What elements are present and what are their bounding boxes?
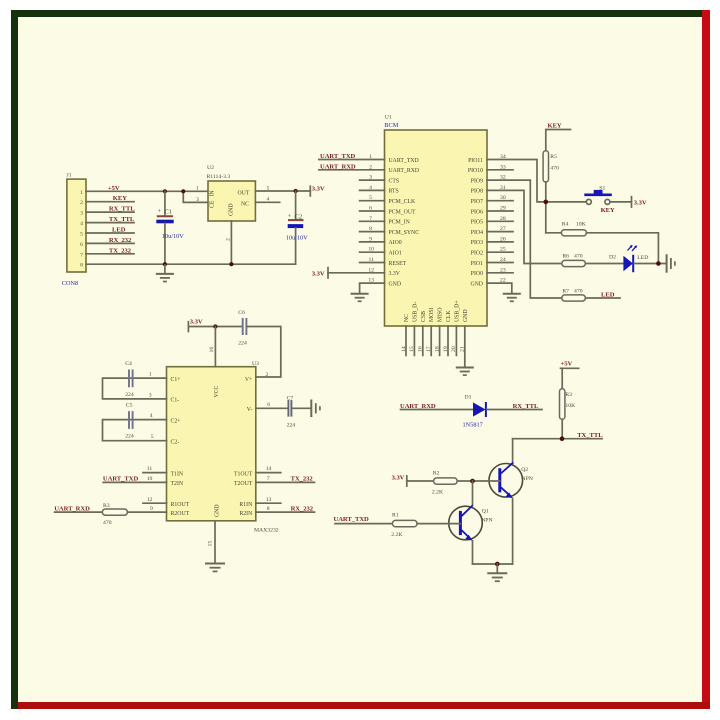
svg-text:224: 224 [287,423,296,429]
svg-text:R6: R6 [562,253,569,259]
svg-text:3.3V: 3.3V [312,185,325,192]
wire R4 to LED node [587,233,659,264]
svg-text:6: 6 [267,402,270,408]
junction rail/U2 GND [229,262,233,266]
wire 3.3V to R2 [407,480,434,482]
svg-text:R7: R7 [562,288,569,294]
svg-text:10u/10V: 10u/10V [162,233,184,240]
resistor R1 [391,512,417,538]
capacitor C6 [238,310,247,346]
svg-text:PIO8: PIO8 [471,189,483,195]
svg-text:15: 15 [207,541,213,547]
svg-text:C2: C2 [295,213,303,220]
wire Q1 collector up [472,481,474,504]
svg-text:RX_232: RX_232 [109,237,132,244]
wire D1 to RX_TTL [487,409,542,411]
svg-text:9: 9 [150,506,153,512]
svg-text:CE: CE [210,200,216,208]
svg-text:GND: GND [463,309,469,322]
wire U1 pin2 UART_RXD [319,169,385,171]
resistor R7 [562,288,586,301]
U3 stub pin12 R1OUT [143,502,167,504]
resistor R3 10K [560,389,577,420]
svg-text:V-: V- [247,407,253,413]
svg-text:C7: C7 [287,396,294,402]
svg-text:RX_TTL: RX_TTL [513,403,539,410]
resistor R3 470 [102,503,127,526]
svg-text:7: 7 [80,252,83,258]
svg-text:RX_TTL: RX_TTL [109,206,135,213]
svg-text:16: 16 [209,347,215,353]
wire R1 to Q1 base [417,523,460,525]
wire +5V rail J1 pin1 to U2 IN [86,190,208,192]
svg-text:PIO10: PIO10 [468,168,483,174]
ground at U3 pin15 [205,564,225,572]
svg-text:12: 12 [147,497,153,503]
junction emitter/ground [495,562,500,567]
U1 left stub pins 3-11 [360,180,385,262]
svg-text:CLK: CLK [446,310,452,322]
svg-text:AIO1: AIO1 [389,251,402,257]
svg-text:NC: NC [404,314,410,322]
U3 stub pin13 R1IN [256,502,281,504]
U1 right pin numbers [500,154,506,284]
svg-text:U3: U3 [252,361,259,367]
resistor R6 [562,253,586,266]
junction KEY node [544,200,549,205]
svg-text:UART_TXD: UART_TXD [389,158,419,164]
svg-text:S1: S1 [599,185,605,191]
svg-text:RTS: RTS [389,189,399,195]
ground at U1 pin13 [351,294,369,302]
svg-text:7: 7 [267,476,270,482]
svg-text:TX_TTL: TX_TTL [109,216,135,223]
wire U3 pin1 C1+ loop [103,378,167,399]
wire U3 pin16 VCC stub [214,327,216,367]
ground rotated right of C7 [311,400,320,418]
junction TX_TTL node [560,436,565,441]
svg-text:PIO6: PIO6 [471,209,483,215]
svg-text:+: + [158,208,162,215]
svg-text:R2: R2 [433,470,440,476]
svg-text:5: 5 [151,434,154,440]
svg-text:C1-: C1- [171,398,180,404]
svg-text:10K: 10K [576,221,587,227]
svg-text:4: 4 [267,196,270,202]
wire R2 to Q2 base [457,480,500,482]
svg-text:V+: V+ [245,377,252,383]
diode D1 1N5817 [463,395,486,429]
ground at U1 pin22 [503,294,521,302]
svg-text:UART_TXD: UART_TXD [103,476,139,483]
svg-text:R1: R1 [392,512,399,518]
svg-text:2.2K: 2.2K [391,532,403,538]
svg-text:Q2: Q2 [521,467,528,473]
resistor R5 [543,151,559,182]
svg-text:AIO0: AIO0 [389,240,402,246]
svg-text:PIO0: PIO0 [471,271,483,277]
svg-text:R2IN: R2IN [239,511,253,517]
ground rotated right of D2 [667,254,675,272]
svg-text:KEY: KEY [113,195,127,202]
wire UART_TXD to U3 pin10 [103,481,166,483]
svg-text:GND: GND [215,504,221,517]
svg-text:UART_RXD: UART_RXD [389,168,420,174]
svg-text:3.3V: 3.3V [392,474,405,481]
svg-text:1: 1 [80,190,83,196]
svg-text:470: 470 [550,166,559,172]
svg-text:Q1: Q1 [482,509,489,515]
svg-text:10: 10 [147,476,153,482]
svg-text:PIO2: PIO2 [471,251,483,257]
svg-text:PCM_OUT: PCM_OUT [389,209,417,215]
svg-text:MAX3232: MAX3232 [254,528,279,534]
svg-text:UART_TXD: UART_TXD [320,153,356,160]
svg-text:VCC: VCC [214,385,220,397]
svg-text:T2OUT: T2OUT [234,481,253,487]
frame green left bar [11,10,18,709]
wire +5V to R3 10K [561,368,563,388]
wire TX node to Q2 collector [512,439,514,463]
svg-text:PIO3: PIO3 [471,240,483,246]
power port bar at R2 [406,476,408,486]
resistor R2 [432,470,457,495]
svg-text:224: 224 [125,434,134,440]
capacitor C5 [125,403,134,440]
svg-text:C4: C4 [125,361,132,367]
svg-text:OUT: OUT [238,190,250,196]
wire C7 to ground [292,407,311,409]
wire J1 pin6 RX_232 [86,242,134,244]
svg-text:+5V: +5V [561,360,573,367]
svg-text:1: 1 [196,185,199,191]
wire J1 pin2 KEY [86,201,134,203]
power port 3.3V at S1 [631,197,633,207]
svg-text:J1: J1 [67,173,72,179]
junction +5V/C1 [163,189,167,193]
junction R2/Q1 collector [470,479,475,484]
svg-text:6: 6 [80,242,83,248]
wire J1 pin5 LED [86,232,134,234]
svg-text:R3: R3 [565,392,572,398]
svg-text:U1: U1 [385,115,392,121]
wire ground stub Q1 Q2 [496,564,498,573]
svg-text:PCM_IN: PCM_IN [389,220,411,226]
switch S1 [584,185,615,214]
wire U2 NC pin4 [255,201,279,203]
svg-text:U2: U2 [207,165,214,171]
svg-text:224: 224 [125,392,134,398]
svg-text:10u 10V: 10u 10V [286,235,308,242]
svg-text:3.3V: 3.3V [312,270,325,277]
svg-text:3.3V: 3.3V [190,319,203,326]
svg-text:PIO9: PIO9 [471,178,483,184]
svg-text:+5V: +5V [108,185,120,192]
wire D2 cathode to node [634,263,666,265]
svg-text:+: + [288,213,292,220]
wire R6 to D2 [585,263,623,265]
svg-text:UART_RXD: UART_RXD [320,163,356,170]
svg-text:LED: LED [601,291,615,298]
svg-text:C2+: C2+ [171,418,181,424]
wire KEY node to R4 [546,232,562,234]
svg-text:470: 470 [574,288,583,294]
svg-text:RESET: RESET [389,261,407,267]
wire U1 pin34 to KEY node [487,160,586,202]
wire Q1 emitter down [472,541,474,564]
svg-text:3: 3 [149,393,152,399]
svg-text:224: 224 [238,340,247,346]
svg-text:R3: R3 [103,503,110,509]
IC U1 BCM module [384,115,487,327]
svg-text:4: 4 [150,413,153,419]
svg-text:T1OUT: T1OUT [234,471,253,477]
svg-text:R1IN: R1IN [239,502,253,508]
svg-text:NPN: NPN [522,476,533,482]
wire U3 pin8 to RX_232 [256,511,315,513]
wire UART_RXD to D1 [401,409,474,411]
svg-text:2.2K: 2.2K [432,489,444,495]
svg-text:RX_232: RX_232 [291,505,314,512]
svg-text:1N5817: 1N5817 [463,422,483,429]
svg-text:2: 2 [80,200,83,206]
wire R3 to U3 pin9 [128,511,167,513]
wire U1 pin12 3.3V [328,272,385,274]
svg-text:T1IN: T1IN [171,471,184,477]
svg-text:8: 8 [80,263,83,269]
wire U3 pin4 C2+ loop [103,420,167,441]
wire U1 pin22 GND [487,283,512,293]
svg-text:USB_D+: USB_D+ [454,300,460,322]
svg-text:PIO4: PIO4 [471,230,483,236]
wire 3.3V rail to C6 [188,326,242,328]
wire UART_TXD to R1 [335,523,392,525]
wire U2 CE branch [183,191,208,202]
U1 bottom pin numbers 14-21 [401,346,466,352]
power port 3.3V at U2 OUT [309,186,311,196]
wire emitter rail [473,563,513,565]
svg-text:USB_D-: USB_D- [412,302,418,322]
wire Q2 emitter down [512,498,514,564]
svg-text:C6: C6 [238,310,245,316]
svg-text:NPN: NPN [481,517,492,523]
resistor R4 [561,221,586,236]
svg-text:2: 2 [266,372,269,378]
svg-text:PCM_SYNC: PCM_SYNC [389,230,420,236]
junction LED node [656,261,661,266]
ground at U1 pin21 [456,368,474,376]
wire U2 OUT to 3.3V [255,190,310,192]
wire TX_TTL line [513,438,603,440]
svg-text:KEY: KEY [601,207,615,214]
svg-text:NC: NC [241,202,249,208]
svg-text:8: 8 [267,506,270,512]
svg-text:GND: GND [470,281,483,287]
wire U3 pin7 to TX_232 [256,481,315,483]
svg-text:LED: LED [637,255,648,261]
transistor Q2 [489,462,533,498]
wire U1 pin1 UART_TXD [319,159,385,161]
svg-text:1: 1 [149,372,152,378]
transistor Q1 [449,505,493,541]
wire R3 to TX_TTL node [561,419,563,438]
LED D2 [609,245,648,272]
svg-text:MOSI: MOSI [429,307,435,322]
frame green top bar [11,10,702,17]
svg-text:CSB: CSB [421,311,427,322]
wire UART_RXD to R3 [55,511,103,513]
svg-text:D1: D1 [465,395,472,401]
wire C6 to U3 V+ pin2 [247,327,280,378]
svg-text:T2IN: T2IN [171,481,184,487]
svg-text:LED: LED [112,227,126,234]
svg-text:CON8: CON8 [62,280,78,287]
svg-text:5: 5 [80,232,83,238]
power port 3.3V at U1 pin12 [327,268,329,278]
svg-text:3: 3 [196,197,199,203]
wire J1 pin3 RX_TTL [86,211,134,213]
svg-text:PCM_CLK: PCM_CLK [389,199,417,205]
U1 right stub pins 33 30 29 28 27 26 25 24 23 [487,170,513,273]
svg-text:470: 470 [103,520,112,526]
ground under C1 [156,264,174,281]
svg-text:PIO1: PIO1 [471,261,483,267]
svg-text:PIO11: PIO11 [468,158,483,164]
svg-text:R1114-3.3: R1114-3.3 [207,174,231,180]
junction rail/C1 [163,262,167,266]
svg-text:TX_TTL: TX_TTL [577,432,603,439]
svg-text:UART_TXD: UART_TXD [334,516,370,523]
svg-text:470: 470 [574,253,583,259]
U1 bottom stub pins 14-20 [406,326,456,355]
junction OUT/C2 [294,189,298,193]
wire U1 pin21 GND [464,326,466,367]
svg-text:GND: GND [229,203,235,216]
wire R7 to LED label [585,297,620,299]
IC U3 MAX3232 [167,361,279,533]
junction +5V/CE [181,189,185,193]
capacitor C1 electrolytic [156,191,184,264]
wire U1 pin13 GND [360,283,385,293]
U3 stub pin14 T1OUT [256,472,281,474]
regulator U2 R1114-3.3 [196,165,270,241]
wire S1 to 3.3V [610,201,632,203]
ground below Q1 Q2 [487,573,507,581]
svg-text:CTS: CTS [389,178,400,184]
wire KEY label stub [546,130,571,151]
wire U1 pin32 to R7 [487,180,562,298]
svg-text:4: 4 [80,221,83,227]
svg-text:TX_232: TX_232 [291,476,314,483]
U1 left pin numbers [368,154,374,284]
svg-text:C1: C1 [165,209,173,216]
frame red right bar [702,10,710,709]
wire U3 pin15 GND [214,521,216,563]
svg-text:KEY: KEY [548,122,562,129]
svg-text:IN: IN [210,190,216,197]
svg-text:TX_232: TX_232 [109,247,132,254]
wire J1 pin4 TX_TTL [86,222,134,224]
svg-text:14: 14 [266,466,272,472]
svg-text:C5: C5 [126,403,133,409]
svg-text:PIO5: PIO5 [471,220,483,226]
svg-text:C2-: C2- [171,440,180,446]
wire R5 bottom to R4 [545,182,547,233]
capacitor C7 [287,396,296,429]
svg-text:R4: R4 [562,221,569,227]
wire U2 GND stub [230,221,232,264]
capacitor C4 [125,361,134,398]
svg-text:11: 11 [147,466,153,472]
svg-text:R5: R5 [550,154,557,160]
svg-text:R2OUT: R2OUT [171,511,190,517]
svg-text:GND: GND [389,281,402,287]
svg-text:C1+: C1+ [171,377,181,383]
svg-text:13: 13 [266,497,272,503]
svg-text:R1OUT: R1OUT [171,502,190,508]
frame red bottom bar [18,702,710,709]
capacitor C2 electrolytic [286,191,308,264]
svg-text:D2: D2 [609,254,616,260]
svg-text:MISO: MISO [438,308,444,323]
svg-text:3.3V: 3.3V [634,200,647,207]
wire J1 pin7 TX_232 [86,253,134,255]
power port 3.3V at U3 VCC [187,322,189,332]
svg-text:3.3V: 3.3V [389,271,401,277]
connector J1 [62,173,86,288]
svg-text:BCM: BCM [384,122,398,129]
svg-text:3: 3 [80,211,83,217]
wire U3 pin6 V- to C7 [256,407,288,409]
svg-text:10K: 10K [565,403,576,409]
wire U1 pin31 to R6 [487,190,562,263]
junction VCC rail [213,324,217,328]
svg-text:PIO7: PIO7 [471,199,483,205]
U3 stub pin11 T1IN [143,472,167,474]
wire ground rail J1 pin8 to C2 [86,263,296,265]
